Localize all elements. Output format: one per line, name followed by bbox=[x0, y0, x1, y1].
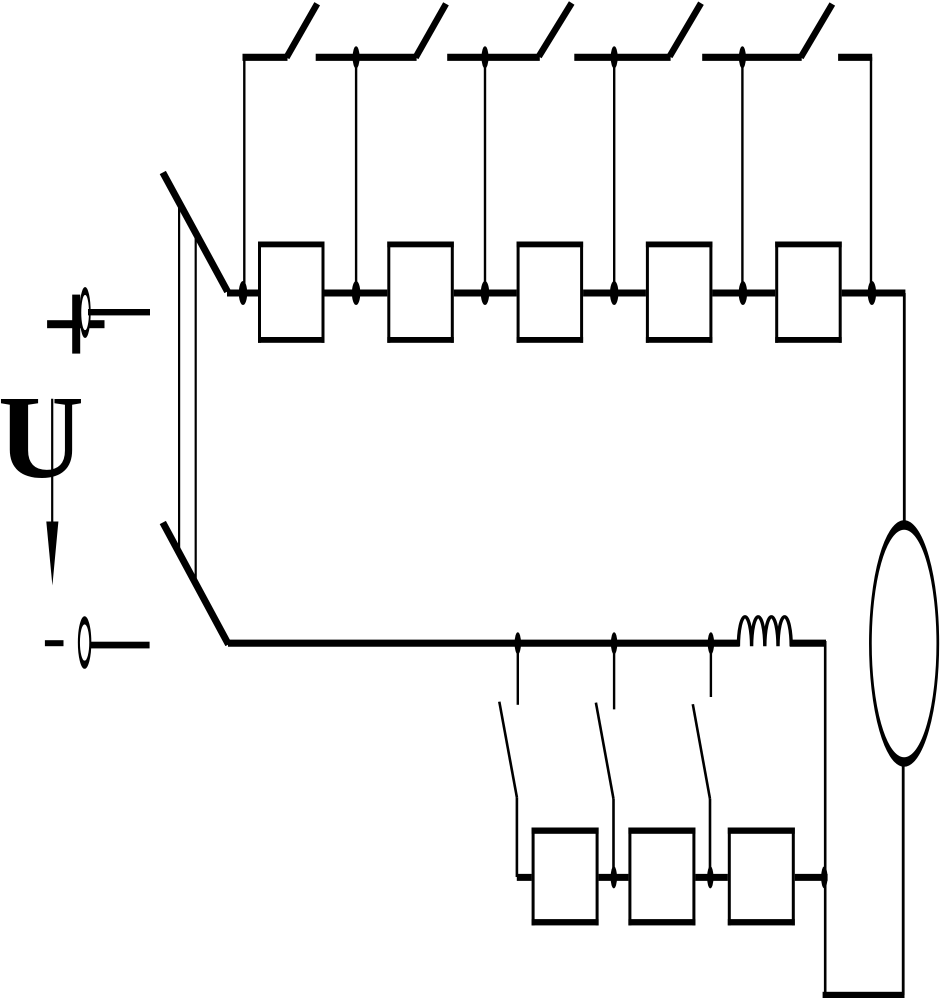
wire: + terminal lead bbox=[88, 309, 150, 315]
wire: motor feed vertical from main row bbox=[903, 293, 906, 526]
resistor R8 bbox=[728, 828, 795, 926]
wire: vertical tap node E bbox=[741, 57, 743, 293]
wire: K6 blade to lower row bbox=[516, 797, 519, 877]
wire: vertical tap node C bbox=[484, 57, 486, 293]
wire: top bus right stub bbox=[838, 54, 872, 61]
wire: lower resistor row bbox=[517, 874, 828, 881]
voltage arrow shaft bbox=[51, 399, 53, 523]
switch K8 blade (open) bbox=[693, 704, 710, 799]
wire: motor bottom vertical bbox=[902, 760, 905, 995]
switch K4 blade (open) bbox=[670, 3, 701, 56]
knife switch S upper blade bbox=[163, 173, 228, 292]
wire: vertical tap node D bbox=[613, 57, 615, 293]
knife switch link rod right bbox=[195, 234, 197, 585]
resistor R4 bbox=[646, 242, 713, 343]
wire: vertical tap node B bbox=[355, 57, 357, 293]
battery minus sign bbox=[45, 640, 64, 646]
wire: drop to switch K8 bbox=[710, 643, 712, 697]
wire: right branch vertical (inductor corner to bottom bar) bbox=[824, 641, 827, 995]
switch K7 blade (open) bbox=[596, 703, 614, 799]
switch K2 blade (open) bbox=[416, 4, 446, 58]
wire: main upper row bbox=[227, 290, 905, 297]
wire: drop to switch K6 bbox=[517, 643, 519, 705]
knife switch S lower blade bbox=[163, 523, 229, 645]
junction dot lower row node 2 bbox=[707, 866, 713, 888]
junction dot bottom wire tap 3 bbox=[708, 632, 714, 654]
battery - terminal circle bbox=[79, 620, 90, 664]
switch K1 blade (open) bbox=[287, 4, 318, 58]
junction dot main row node D bbox=[610, 281, 618, 305]
junction dot bottom wire tap 2 bbox=[611, 632, 617, 654]
knife switch link rod left bbox=[178, 203, 180, 554]
svg-text:U: U bbox=[0, 371, 84, 503]
switch K5 blade (open) bbox=[801, 4, 833, 58]
wire: K7 blade to lower row bbox=[612, 799, 615, 877]
wire: top bus segment 4 bbox=[574, 54, 670, 61]
wire: drop to switch K7 bbox=[613, 643, 615, 709]
junction dot main row node A bbox=[239, 281, 247, 305]
junction dot main row node E bbox=[739, 281, 747, 305]
resistor R5 bbox=[775, 242, 842, 343]
junction dot on bus at node E bbox=[739, 46, 746, 68]
inductor L bbox=[738, 617, 791, 647]
wire: top bus segment 3 bbox=[447, 54, 540, 61]
wire: bottom row after inductor bbox=[790, 640, 826, 647]
junction dot on bus at node D bbox=[611, 46, 618, 68]
junction dot lower row right end bbox=[821, 866, 827, 888]
wire: top bus segment 2 bbox=[316, 54, 417, 61]
junction dot on bus at node B bbox=[353, 46, 360, 68]
motor M (armature ellipse) bbox=[870, 525, 937, 762]
junction dot main row node F bbox=[868, 281, 876, 305]
junction dot on bus at node C bbox=[482, 46, 489, 68]
resistor R3 bbox=[517, 242, 584, 343]
resistor R6 bbox=[532, 828, 599, 926]
switch K3 blade (open) bbox=[539, 3, 572, 57]
wire: bottom row main bbox=[228, 640, 740, 647]
junction dot lower row node 1 bbox=[611, 866, 617, 888]
junction dot main row node C bbox=[481, 281, 489, 305]
resistor R7 bbox=[628, 828, 695, 926]
wire: vertical right end of top bus bbox=[870, 57, 872, 293]
wire: K8 blade to lower row bbox=[709, 799, 712, 877]
battery + terminal circle bbox=[80, 291, 89, 334]
junction dot bottom wire tap 1 bbox=[515, 632, 521, 654]
wire: top shorting-switch bus segment 1 bbox=[243, 54, 288, 61]
wire: - terminal lead bbox=[90, 642, 150, 649]
voltage arrow head bbox=[46, 522, 58, 586]
switch K6 blade (open) bbox=[499, 702, 517, 798]
junction dot main row node B bbox=[352, 281, 360, 305]
battery plus sign bbox=[47, 295, 104, 354]
resistor R1 bbox=[258, 242, 325, 343]
resistor R2 bbox=[387, 242, 454, 343]
wire: top bus segment 5 bbox=[702, 54, 802, 61]
wire: bottom connecting bar bbox=[823, 992, 905, 998]
wire: vertical tap node A bbox=[243, 57, 245, 293]
